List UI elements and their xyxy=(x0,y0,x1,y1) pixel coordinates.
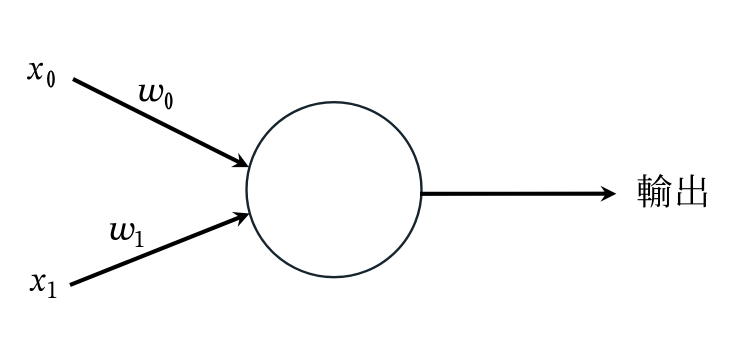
label 輸出 (output) xyxy=(637,174,707,208)
glyph 出 xyxy=(677,174,707,207)
label x0 xyxy=(27,63,55,88)
label w0 xyxy=(139,85,173,110)
glyph 輸 xyxy=(637,174,671,208)
wire: output arrow neuron -> output xyxy=(420,186,616,202)
wire: input arrow x1 -> neuron (weight w1) xyxy=(70,212,250,285)
label w1 xyxy=(110,223,143,247)
label x1 xyxy=(30,274,57,298)
wire: input arrow x0 -> neuron (weight w0) xyxy=(73,79,249,167)
neuron circle (node) xyxy=(247,102,422,277)
